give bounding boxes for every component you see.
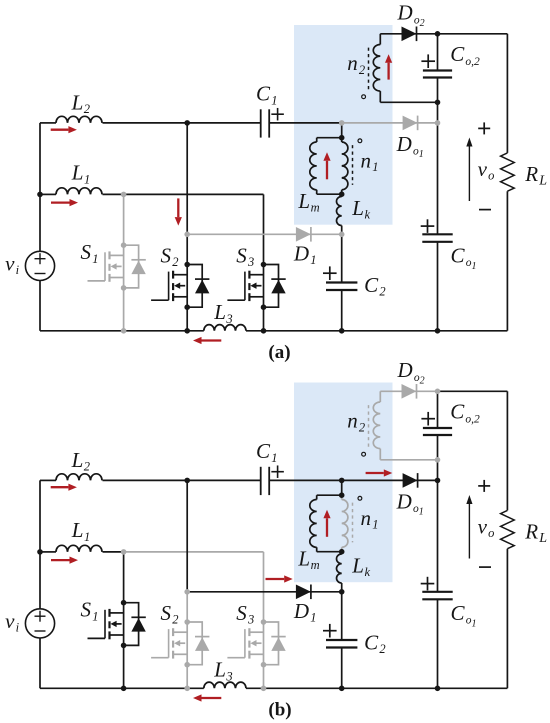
svg-text:S1: S1 bbox=[81, 240, 99, 266]
svg-text:Co,2: Co,2 bbox=[450, 42, 480, 68]
svg-text:(a): (a) bbox=[268, 342, 290, 363]
svg-text:Co1: Co1 bbox=[451, 601, 477, 629]
svg-text:S3: S3 bbox=[236, 601, 254, 627]
svg-text:RL: RL bbox=[524, 162, 547, 189]
svg-text:Co1: Co1 bbox=[451, 243, 477, 271]
svg-text:S1: S1 bbox=[81, 598, 99, 624]
svg-text:Do2: Do2 bbox=[397, 1, 425, 29]
svg-text:C1: C1 bbox=[256, 439, 277, 465]
svg-text:Do2: Do2 bbox=[397, 358, 425, 386]
svg-text:D1: D1 bbox=[293, 241, 317, 267]
svg-text:S2: S2 bbox=[161, 243, 179, 269]
svg-text:(b): (b) bbox=[268, 700, 291, 721]
svg-text:L3: L3 bbox=[213, 658, 232, 684]
svg-text:Co,2: Co,2 bbox=[450, 400, 480, 426]
svg-text:vi: vi bbox=[5, 251, 20, 277]
svg-text:C2: C2 bbox=[364, 630, 385, 656]
svg-text:C1: C1 bbox=[256, 82, 277, 108]
svg-text:vo: vo bbox=[478, 157, 495, 183]
svg-text:RL: RL bbox=[524, 519, 547, 546]
svg-text:L1: L1 bbox=[71, 161, 90, 187]
svg-text:C2: C2 bbox=[364, 273, 385, 299]
svg-text:vo: vo bbox=[478, 514, 495, 540]
svg-text:S3: S3 bbox=[236, 243, 254, 269]
svg-text:L1: L1 bbox=[71, 518, 90, 544]
svg-text:L2: L2 bbox=[71, 448, 90, 474]
svg-text:D1: D1 bbox=[293, 599, 317, 625]
svg-text:L2: L2 bbox=[71, 90, 90, 116]
svg-text:Do1: Do1 bbox=[396, 489, 424, 517]
svg-text:vi: vi bbox=[5, 609, 20, 635]
svg-text:Do1: Do1 bbox=[396, 132, 424, 160]
svg-text:S2: S2 bbox=[161, 601, 179, 627]
svg-text:L3: L3 bbox=[213, 300, 232, 326]
